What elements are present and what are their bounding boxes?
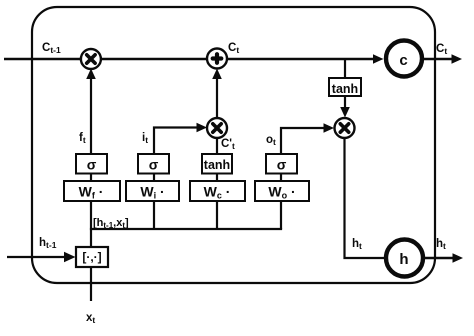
wire top cell-state bus Ct-1 to c — [4, 58, 377, 61]
weight box Wo — [255, 181, 309, 201]
hidden circle h — [386, 240, 423, 277]
wire sigma-f to Wf — [90, 174, 92, 182]
memory circle c — [386, 41, 422, 77]
sigma box output gate — [266, 154, 297, 174]
multiply node X2 (input gating) — [207, 118, 227, 138]
svg-text:tanh: tanh — [332, 82, 358, 96]
tanh box candidate — [202, 154, 232, 174]
wire xt input up into concat box — [90, 267, 92, 301]
wire sigma-i to Wi — [153, 174, 155, 182]
wire concat distribution bus — [90, 228, 282, 230]
sigma box forget gate — [76, 154, 107, 174]
add node plus — [207, 49, 227, 69]
arrowhead into multiply node 1 — [86, 69, 96, 80]
wire Wi down to concat bus — [153, 201, 155, 229]
wire tanh-c to Wc — [216, 174, 218, 182]
arrowhead into multiply node 2 — [197, 123, 208, 133]
tanh box (output squashing) — [329, 78, 361, 96]
wire h output — [424, 257, 456, 259]
svg-text:h: h — [399, 251, 408, 268]
wire ht from multiply node 3 down and right to h circle — [345, 138, 385, 258]
svg-text:σ: σ — [149, 157, 159, 173]
wire Wf down to concat box — [90, 201, 92, 247]
wire sigma-o to Wo — [280, 174, 282, 182]
weight box Wc — [190, 181, 245, 201]
wire branch down to tanh output — [344, 59, 346, 78]
svg-text:Wi ·: Wi · — [140, 184, 164, 201]
weight box Wi — [126, 181, 179, 201]
wire o gate vertical and horizontal into multiply node 3 — [281, 128, 326, 154]
weight box Wf — [64, 181, 120, 201]
wire tanh to multiply node 3 — [344, 96, 346, 111]
svg-text:σ: σ — [87, 157, 97, 173]
wire tanh-c up to multiply node 2 — [216, 138, 218, 154]
arrowhead into add node — [212, 69, 222, 80]
arrowhead into c circle — [373, 54, 384, 64]
multiply node X1 (forget gating) — [81, 49, 101, 69]
arrowhead into multiply node 3 — [340, 107, 350, 118]
svg-text:tanh: tanh — [204, 158, 230, 172]
arrowhead o into multiply node 3 — [324, 123, 335, 133]
svg-text:c: c — [399, 52, 407, 69]
arrowhead h output — [453, 253, 464, 263]
wire Wc down to concat bus — [216, 201, 218, 229]
arrowhead ht-1 into concat box — [64, 252, 76, 262]
sigma box input gate — [138, 154, 169, 174]
arrowhead c output — [452, 54, 463, 64]
wire f gate vertical to multiply node — [90, 74, 92, 154]
concat box [.,.] — [76, 247, 108, 267]
svg-text:[·,·]: [·,·] — [82, 250, 101, 264]
svg-text:Wf ·: Wf · — [79, 184, 104, 201]
wire i gate vertical and horizontal into multiply node 2 — [154, 128, 199, 155]
svg-text:σ: σ — [277, 157, 287, 173]
multiply node X3 (output gating) — [335, 118, 355, 138]
wire C't vertical to add node — [216, 74, 218, 118]
wire ht-1 input — [7, 256, 67, 258]
wire c output — [423, 58, 455, 60]
wire Wo down to concat bus — [280, 201, 282, 229]
outer rounded cell boundary — [32, 7, 435, 283]
